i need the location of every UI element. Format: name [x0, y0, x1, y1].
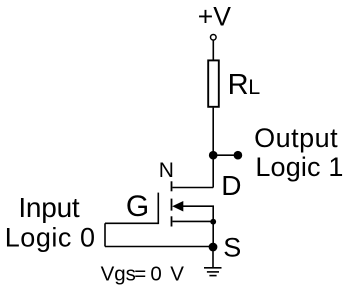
transistor Q1 channel dash 3 [171, 216, 173, 226]
svg-text:Output: Output [254, 123, 338, 153]
ground [204, 268, 222, 276]
node S junction [209, 243, 218, 252]
node output junction [209, 151, 218, 160]
svg-text:D: D [221, 170, 241, 201]
svg-text:N: N [159, 159, 174, 182]
svg-text:L: L [248, 75, 260, 99]
wire source to S node [212, 222, 214, 247]
terminal output [234, 151, 243, 160]
terminal +V [211, 35, 217, 41]
transistor Q1 channel dash 2 [171, 199, 173, 211]
svg-text:Vgs: Vgs [101, 262, 136, 285]
transistor Q1 source lead [173, 220, 214, 222]
svg-text:Input: Input [18, 192, 79, 223]
svg-text:G: G [126, 190, 149, 223]
svg-text:V: V [170, 262, 184, 285]
gate lead wire [105, 222, 158, 224]
svg-text:Logic 1: Logic 1 [255, 152, 343, 182]
node bulk-source junction [210, 219, 216, 225]
svg-text:+V: +V [198, 2, 231, 32]
transistor Q1 bulk arrow [172, 201, 183, 212]
transistor Q1 channel dash 1 [171, 181, 173, 191]
resistor RL [208, 60, 219, 106]
wire terminal to resistor [212, 40, 214, 60]
wire bulk to source [183, 206, 213, 222]
wire output stub [213, 154, 238, 156]
transistor Q1 drain lead [173, 187, 214, 189]
transistor Q1 gate bar [157, 193, 159, 225]
svg-text:R: R [228, 69, 249, 101]
svg-text:=: = [134, 262, 146, 285]
svg-text:Logic 0: Logic 0 [5, 222, 96, 252]
svg-text:S: S [223, 233, 241, 263]
wire resistor to drain corner [212, 108, 214, 188]
wire gate drop [104, 223, 106, 246]
wire bottom rail to S [105, 246, 213, 248]
wire S to ground [212, 247, 214, 268]
svg-text:0: 0 [150, 262, 161, 285]
